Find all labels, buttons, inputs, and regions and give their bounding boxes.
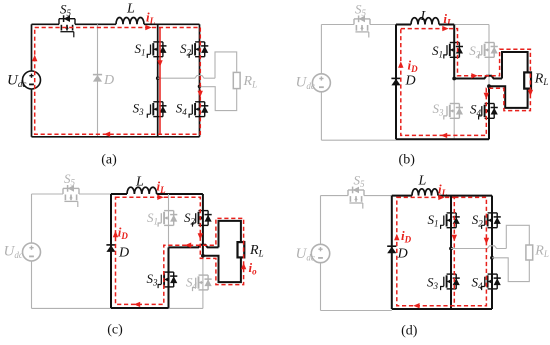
bridge right leg (a)	[199, 24, 201, 137]
red current loop right (d)	[454, 197, 486, 305]
node left-mid junction (d)	[449, 247, 453, 251]
red arrow down S2-S4 (a)	[198, 91, 203, 97]
red arrow left bottom (b)	[441, 133, 447, 138]
switch S3 (b)	[444, 104, 463, 120]
voltage source U_dc (a)	[23, 71, 41, 89]
diode branch wire (c)	[110, 194, 112, 308]
wire D to L (b)	[396, 24, 411, 26]
wire left vertical (a)	[31, 24, 33, 137]
node right-mid junction (d)	[490, 256, 494, 260]
right leg lower black (b)	[488, 86, 490, 139]
red arrow i_o up R_L (c)	[241, 263, 246, 269]
top rail to right leg (d)	[438, 195, 492, 197]
red arrow i_L (c)	[157, 195, 163, 200]
node left-mid junction (b)	[452, 77, 456, 81]
switch S2 (d)	[482, 213, 501, 229]
mid horizontal with hop (c)	[169, 245, 219, 248]
svg-text:L: L	[420, 9, 429, 24]
red current branch left leg (a)	[159, 28, 161, 135]
red arrow to load (b)	[471, 73, 477, 78]
bridge left leg (a)	[157, 24, 159, 137]
load wire to R_L top (a)	[215, 52, 237, 78]
wire L to left leg (b)	[439, 24, 454, 26]
red arrow down R_L (b)	[528, 90, 533, 96]
svg-text:D: D	[118, 246, 129, 261]
red arrow down S2 (c)	[198, 233, 203, 239]
svg-text:(a): (a)	[101, 153, 117, 168]
diode D (c)	[106, 245, 115, 252]
switch S2 (a)	[189, 42, 208, 58]
load wire upper stub with hop (d)	[451, 246, 506, 249]
resistor R_L (c)	[238, 242, 245, 257]
inductor L (a)	[116, 17, 144, 24]
load wire upper stub with hop (a)	[158, 76, 215, 79]
switch S5 (d)	[348, 187, 364, 209]
voltage source U_dc (c)	[23, 243, 41, 261]
diode branch wire (d)	[391, 196, 393, 309]
load wire to R_L top (b)	[502, 52, 528, 79]
wire S5 to diode branch (d)	[364, 195, 392, 197]
bottom wire gray left (c)	[32, 307, 112, 309]
wire left vertical (b)	[320, 25, 322, 141]
red arrow i_L (b)	[442, 26, 448, 31]
left leg lower gray (b)	[453, 79, 455, 140]
wire top-left to S5 (a)	[32, 23, 60, 25]
load wire from R_L bottom (a)	[200, 87, 237, 111]
wire L to right leg (c)	[157, 193, 203, 195]
load wire from R_L bottom (d)	[492, 258, 529, 282]
switch S5 (c)	[63, 185, 79, 207]
load wire upper stub with hop (b)	[454, 76, 502, 79]
bottom rail black (b)	[396, 138, 489, 140]
switch S2 (b)	[479, 43, 498, 59]
red arrow up through U_dc (a)	[32, 55, 37, 61]
resistor R_L (b)	[524, 72, 531, 88]
load wire to R_L top (c)	[219, 221, 241, 248]
top rail gray to right leg (b)	[454, 24, 489, 26]
svg-text:L: L	[418, 174, 427, 189]
node left-mid junction (a)	[156, 76, 160, 80]
red arrow down S1 (a)	[157, 60, 162, 66]
switch S3 (c)	[158, 272, 177, 288]
switch S1 (c)	[158, 211, 177, 227]
switch S5 (b)	[354, 16, 370, 38]
wire top-left to S5 (b)	[321, 24, 354, 26]
svg-text:L: L	[126, 2, 135, 17]
inductor L (d)	[412, 189, 438, 196]
wire S5 to diode branch (b)	[370, 24, 396, 26]
bottom rail black (d)	[392, 308, 492, 310]
diode D (a)	[93, 75, 102, 82]
left leg upper black (b)	[453, 25, 455, 79]
switch S4 (c)	[193, 275, 212, 291]
wire left vertical (d)	[320, 196, 322, 311]
svg-text:(b): (b)	[399, 153, 416, 168]
switch S3 (d)	[441, 274, 460, 290]
red arrow down S1 (d)	[452, 235, 457, 241]
switch S4 (d)	[482, 274, 501, 290]
wire left vertical (c)	[31, 194, 33, 308]
red arrow left to S3 (c)	[185, 243, 191, 248]
bridge right leg (d)	[491, 196, 493, 309]
switch S4 (b)	[479, 104, 498, 120]
wire D to L (d)	[392, 195, 412, 197]
red arrow up through D (c)	[113, 231, 118, 237]
svg-text:D: D	[405, 74, 416, 89]
switch S1 (d)	[441, 213, 460, 229]
svg-text:D: D	[103, 73, 114, 88]
svg-text:(c): (c)	[107, 323, 123, 338]
bottom rail (a)	[32, 136, 200, 138]
right leg upper black (c)	[202, 194, 204, 256]
red arrow up through D (b)	[398, 61, 403, 67]
red current loop left (d)	[397, 197, 455, 305]
wire D to L (c)	[111, 193, 127, 195]
bridge left leg (d)	[450, 196, 452, 309]
left leg lower black (c)	[168, 247, 170, 308]
red arrow left bottom (a)	[104, 132, 110, 137]
voltage source U_dc (d)	[311, 244, 329, 262]
resistor R_L (a)	[233, 72, 240, 88]
red arrow i_L (d)	[438, 195, 444, 200]
wire top-left to S5 (d)	[321, 195, 349, 197]
red arrow up through D (d)	[394, 234, 399, 240]
switch S1 (b)	[444, 43, 463, 59]
inductor L (b)	[411, 18, 439, 25]
load wire to R_L top (d)	[506, 225, 529, 248]
red arrow down S2 (d)	[484, 238, 489, 244]
wire top-left to S5 (c)	[32, 193, 64, 195]
switch S3 (a)	[147, 102, 166, 118]
node right-mid junction (a)	[198, 85, 202, 89]
switch S2 (c)	[193, 211, 212, 227]
bottom rail black (c)	[111, 307, 169, 309]
inductor L (c)	[127, 187, 157, 194]
voltage source U_dc (b)	[312, 74, 330, 92]
bottom wire gray (b)	[321, 139, 396, 141]
right leg upper gray (b)	[488, 25, 490, 87]
red current loop (c)	[116, 197, 244, 304]
right leg lower gray (c)	[202, 256, 204, 309]
red arrow down S4 (b)	[484, 93, 489, 99]
svg-text:L: L	[135, 175, 144, 190]
red arrow left bottom (d)	[413, 303, 419, 308]
diode D (d)	[387, 246, 396, 253]
node B junction (c)	[201, 254, 205, 258]
svg-text:D: D	[397, 247, 408, 262]
red current loop (b)	[401, 29, 531, 136]
wire S5 to L (a)	[75, 23, 116, 25]
red current loop main (a)	[35, 28, 201, 135]
red arrow i_L (a)	[145, 25, 151, 30]
wire L to bridge top rail (a)	[144, 23, 200, 25]
load wire from R_L bottom (c)	[203, 256, 241, 282]
left leg upper gray (c)	[168, 194, 170, 247]
switch S5 (a)	[59, 15, 75, 37]
red arrow left bottom (c)	[134, 302, 140, 307]
wire S5 to diode branch (c)	[79, 193, 111, 195]
load wire from R_L bottom (b)	[489, 86, 528, 108]
diode branch wire (b)	[395, 25, 397, 140]
diode branch wire (a)	[97, 24, 99, 137]
switch S1 (a)	[147, 42, 166, 58]
svg-text:(d): (d)	[401, 324, 418, 339]
switch S4 (a)	[189, 102, 208, 118]
bottom wire gray (d)	[321, 310, 392, 312]
bottom rail gray right (c)	[169, 307, 203, 309]
resistor R_L (d)	[526, 245, 533, 260]
diode D (b)	[391, 78, 400, 85]
node right stub junction (b)	[487, 84, 491, 88]
